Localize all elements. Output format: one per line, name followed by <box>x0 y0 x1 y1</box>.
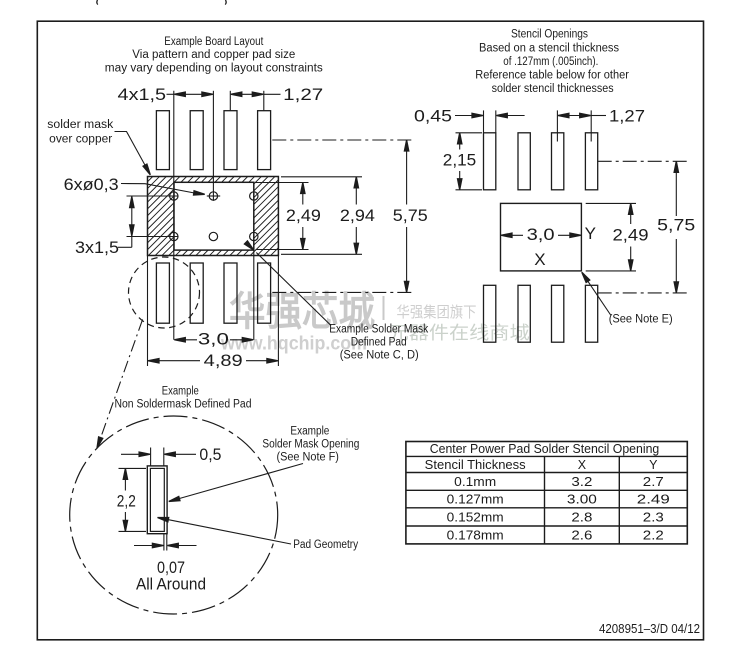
svg-text:Defined Pad: Defined Pad <box>351 337 407 349</box>
via circle 4 <box>170 232 178 240</box>
dimension 2,15 arrow line bottom <box>459 171 461 189</box>
stencil top opening 3 <box>552 133 564 190</box>
via circle 2 <box>209 192 217 200</box>
dimension 1,27 right extension line 1 <box>556 110 558 141</box>
via extension line horizontal row 1 <box>127 195 179 197</box>
svg-text:3,0: 3,0 <box>527 225 555 244</box>
svg-text:3x1,5: 3x1,5 <box>75 238 119 257</box>
svg-text:of .127mm (.005inch).: of .127mm (.005inch). <box>503 56 598 68</box>
dimension 2,2 extension line top <box>119 467 147 469</box>
dimension 0,5 extension line 2 <box>163 448 165 466</box>
via circle 5 <box>209 232 217 240</box>
table row line 4 <box>406 507 687 509</box>
svg-text:2.6: 2.6 <box>571 528 592 542</box>
svg-text:0,5: 0,5 <box>199 445 221 464</box>
LEFT-DRAWING <box>47 36 428 449</box>
via circle 3 <box>250 192 258 200</box>
svg-text:(See Note E): (See Note E) <box>609 312 673 326</box>
WATERMARK <box>220 290 530 355</box>
table row line 2 <box>406 472 687 474</box>
svg-text:Example: Example <box>290 425 329 437</box>
dimension 2,94 arrowhead up <box>354 177 358 188</box>
svg-text:(See Note C, D): (See Note C, D) <box>340 350 419 362</box>
dimension 4,89 line left segment <box>149 360 200 362</box>
solder mask defined pad leader <box>256 253 331 326</box>
dimension 3x1,5 connector <box>118 246 132 248</box>
table column line 1 <box>544 456 546 544</box>
dimension 2,2 arrowhead down <box>123 520 127 531</box>
centerline top (right drawing) <box>598 160 690 162</box>
via extension line horizontal row 2 <box>127 236 179 238</box>
solder mask opening leader <box>179 464 303 499</box>
detail leader arrowhead <box>95 437 103 449</box>
dimension 2,15 arrow line top <box>459 133 461 149</box>
dimension 1,27 right arrowhead right <box>580 113 591 117</box>
dimension 3,0 right arrowhead right <box>570 233 581 237</box>
dimension 3x1,5 arrowhead up <box>130 197 134 208</box>
dimension 2,2 arrow line top <box>124 469 126 491</box>
svg-text:Based on a stencil thickness: Based on a stencil thickness <box>479 42 619 54</box>
dimension 0,5 left arrowhead <box>139 452 150 456</box>
svg-text:solder mask: solder mask <box>47 119 113 131</box>
outer rect right edge extension down <box>277 256 279 367</box>
see note E leader arrowhead <box>580 271 590 283</box>
TABLE <box>406 442 687 544</box>
dimension 2,94 arrowhead down <box>354 243 358 254</box>
dimension 5,75 left arrow line top <box>406 141 408 205</box>
dimension 2,49 extension line top <box>256 182 309 184</box>
dimension 0,5 extension line 1 <box>150 448 152 466</box>
svg-text:All Around: All Around <box>136 574 206 593</box>
svg-text:2.3: 2.3 <box>643 510 664 524</box>
top copper pad 2 <box>190 111 203 170</box>
svg-text:1,27: 1,27 <box>283 85 323 104</box>
svg-text:Pad Geometry: Pad Geometry <box>293 539 358 551</box>
stencil top opening 1 <box>484 133 496 190</box>
svg-text:4208951–3/D 04/12: 4208951–3/D 04/12 <box>599 621 700 636</box>
dimension 2,15 extension line top <box>456 132 483 134</box>
dimension 0,45 left arrowhead <box>472 113 483 117</box>
detail leader dash-dot line <box>100 319 143 441</box>
dimension 2,2 arrowhead up <box>123 468 127 479</box>
bottom copper pad 3 <box>224 263 237 323</box>
svg-text:华强集团旗下: 华强集团旗下 <box>397 304 477 321</box>
detail view phantom circle <box>70 416 278 614</box>
svg-text:Y: Y <box>585 224 596 243</box>
dimension 0,07 left arrowhead <box>152 543 163 547</box>
dimension 0,07 right arrow line <box>168 545 197 547</box>
center pad outer rect <box>148 177 279 256</box>
dimension 1,27 right connector <box>591 115 606 117</box>
svg-text:2,94: 2,94 <box>340 206 375 225</box>
stencil top opening 2 <box>518 133 530 190</box>
dimension 3,0 line right segment <box>230 339 253 341</box>
svg-text:2,49: 2,49 <box>286 206 321 225</box>
svg-text:X: X <box>534 250 545 269</box>
dimension 1,27 right extension line 2 <box>590 110 592 141</box>
dimension 0,07 extension line 1 <box>163 534 165 551</box>
dimension 3,0 right line right segment <box>558 234 580 236</box>
dimension 1,27 left extension line 1 <box>229 91 231 111</box>
svg-text:Y: Y <box>649 458 658 472</box>
svg-text:1,27: 1,27 <box>609 106 645 125</box>
svg-text:X: X <box>578 458 587 472</box>
svg-text:Center Power Pad Solder Stenci: Center Power Pad Solder Stencil Opening <box>430 442 660 456</box>
detail indicator dashed circle <box>129 257 200 328</box>
table row line 1 <box>406 455 687 457</box>
svg-text:Stencil Thickness: Stencil Thickness <box>425 458 526 472</box>
cropped text remnant top: right parenthesis bottom <box>224 0 227 5</box>
dimension 0,07 extension line 2 <box>166 534 168 551</box>
via crosshair tick row 1 <box>207 195 220 197</box>
dimension 4x1,5 arrow line <box>175 93 212 95</box>
svg-text:2,15: 2,15 <box>443 150 477 169</box>
outer rect left edge extension down <box>147 256 149 367</box>
dimension 2,49 right extension line bottom <box>586 270 636 272</box>
svg-text:3.00: 3.00 <box>567 493 597 507</box>
solder mask opening leader arrowhead <box>168 496 180 503</box>
svg-text:over copper: over copper <box>49 134 112 146</box>
svg-text:Example Solder Mask: Example Solder Mask <box>329 324 428 336</box>
bottom copper pad 2 <box>190 263 203 323</box>
dimension 5,75 left arrow line bottom <box>406 227 408 292</box>
centerline bottom (left drawing) <box>272 291 413 293</box>
svg-text:6xø0,3: 6xø0,3 <box>64 175 119 194</box>
via circle 1 <box>170 192 178 200</box>
svg-text:may vary depending on layout c: may vary depending on layout constraints <box>105 63 323 75</box>
svg-text:Reference table below for othe: Reference table below for other <box>475 70 629 82</box>
cropped text remnant top: left parenthesis bottom <box>96 0 99 5</box>
svg-text:(See Note F): (See Note F) <box>276 451 339 463</box>
svg-text:3.2: 3.2 <box>571 475 592 489</box>
svg-text:0.1mm: 0.1mm <box>454 475 496 489</box>
centerline top (left drawing) <box>272 139 413 141</box>
dimension 4,89 line right segment <box>246 360 277 362</box>
svg-text:2,49: 2,49 <box>613 225 649 244</box>
svg-text:0.178mm: 0.178mm <box>447 528 504 542</box>
svg-text:solder stencil thicknesses: solder stencil thicknesses <box>492 83 614 95</box>
dimension 3,0 line left segment <box>175 339 197 341</box>
dimension 2,49 extension line bottom <box>256 249 309 251</box>
dimension 1,27 right arrow line <box>559 115 590 117</box>
dimension 1,27 left arrowhead left <box>231 92 242 96</box>
dimension 3,0 right line left segment <box>502 234 523 236</box>
dimension 3,0 arrowhead left <box>174 338 185 342</box>
dimension 4x1,5 connector <box>167 93 174 95</box>
dimension 6x dia 0,3 leader <box>121 184 195 194</box>
dimension 4,89 arrowhead right <box>267 359 278 363</box>
centerline bottom (right drawing) <box>598 292 690 294</box>
stencil bottom opening 1 <box>484 285 496 342</box>
dimension 1,27 left arrowhead right <box>252 92 263 96</box>
svg-text:Example: Example <box>162 385 199 397</box>
dimension 0,5 right arrowhead <box>164 452 175 456</box>
top copper pad 4 <box>258 111 271 170</box>
dimension 0,45 right arrowhead <box>496 113 507 117</box>
stencil bottom opening 2 <box>518 285 530 342</box>
solder mask leader arrowhead <box>143 164 152 176</box>
dimension 1,27 right arrowhead left <box>558 113 569 117</box>
dimension 3x1,5 arrow line <box>131 197 133 247</box>
inner rect right edge extension down <box>253 250 255 340</box>
dimension 5,75 left arrowhead down <box>404 281 408 292</box>
dimension 2,49 arrow line top <box>302 183 304 205</box>
see note E leader <box>584 276 611 316</box>
svg-text:0.127mm: 0.127mm <box>447 493 504 507</box>
dimension 5,75 left arrowhead up <box>404 140 408 151</box>
dimension 2,49 right arrow line bottom <box>630 247 632 271</box>
svg-text:5,75: 5,75 <box>657 216 695 235</box>
solder mask defined pad leader arrowhead <box>244 241 255 252</box>
pad geometry leader <box>168 520 291 544</box>
table row line 5 <box>406 525 687 527</box>
center pad hatched solder mask ring <box>148 177 279 256</box>
table column line 2 <box>618 456 620 544</box>
dimension 2,49 right arrow line top <box>630 204 632 224</box>
dimension 2,2 extension line bottom <box>119 530 147 532</box>
via extension line vertical B (x=213.4) <box>212 91 214 201</box>
center pad inner rect (solder mask opening) <box>174 182 254 250</box>
dimension 2,94 arrow line bottom <box>355 227 357 254</box>
dimension 2,94 extension line top <box>281 176 362 178</box>
dimension 4,89 arrowhead left <box>148 359 159 363</box>
dimension 5,75 right arrowhead down <box>674 282 678 293</box>
dimension 2,15 arrowhead down <box>458 179 462 190</box>
svg-text:0,45: 0,45 <box>414 106 452 125</box>
dimension 1,27 left connector <box>264 93 281 95</box>
stencil center opening rect <box>501 203 582 271</box>
detail pad geometry rect <box>150 468 164 531</box>
svg-text:2,2: 2,2 <box>117 492 136 511</box>
svg-text:Via pattern and copper pad siz: Via pattern and copper pad size <box>132 49 295 61</box>
svg-text:2.2: 2.2 <box>643 528 664 542</box>
dimension 2,49 right arrowhead down <box>629 260 633 271</box>
dimension 5,75 right arrowhead up <box>674 161 678 172</box>
top copper pad 3 <box>224 111 237 170</box>
dimension 0,5 right arrow line <box>165 453 196 455</box>
solder mask leader <box>115 132 149 172</box>
dimension 4x1,5 arrowhead left <box>174 92 185 96</box>
svg-text:2.7: 2.7 <box>643 475 664 489</box>
dimension 0,45 extension line 1 <box>483 110 485 132</box>
svg-text:Non Soldermask Defined Pad: Non Soldermask Defined Pad <box>115 399 252 411</box>
dimension 0,07 right arrowhead <box>167 543 178 547</box>
svg-text:2.8: 2.8 <box>571 510 592 524</box>
dimension 6x dia 0,3 leader arrowhead <box>194 191 205 197</box>
svg-text:Example Board Layout: Example Board Layout <box>164 36 264 48</box>
stencil bottom opening 3 <box>552 285 564 342</box>
dimension 2,2 arrow line bottom <box>124 512 126 531</box>
dimension 2,49 arrow line bottom <box>302 227 304 249</box>
svg-text:3,0: 3,0 <box>198 330 229 349</box>
svg-text:Solder Mask Opening: Solder Mask Opening <box>262 438 359 450</box>
stencil bottom opening 4 <box>585 285 597 342</box>
svg-text:4x1,5: 4x1,5 <box>118 85 167 104</box>
detail solder mask opening rect <box>147 466 167 534</box>
dimension 0,07 left arrow line <box>134 545 163 547</box>
dimension 2,49 arrowhead up <box>301 183 305 194</box>
dimension 3x1,5 arrowhead down <box>130 225 134 236</box>
dimension 1,27 left extension line 2 <box>263 91 265 111</box>
stencil top opening 4 <box>585 133 597 190</box>
dimension 4x1,5 arrowhead right <box>202 92 213 96</box>
dimension 2,94 arrow line top <box>355 177 357 204</box>
RIGHT-DRAWING <box>414 29 695 342</box>
via circle 6 <box>250 232 258 240</box>
DETAIL-CIRCLE <box>70 385 360 614</box>
svg-text:4,89: 4,89 <box>204 351 243 370</box>
dimension 2,49 right extension line top <box>586 202 636 204</box>
dimension 0,5 left arrow line <box>121 453 150 455</box>
table outer border <box>406 442 687 544</box>
pad geometry leader arrowhead <box>157 515 169 521</box>
dimension 5,75 right arrow line bottom <box>675 239 677 292</box>
svg-text:Stencil Openings: Stencil Openings <box>511 29 588 41</box>
bottom copper pad 4 <box>258 263 271 323</box>
dimension 0,45 right arrow line <box>497 115 525 117</box>
dimension 0,45 left arrow line <box>455 115 483 117</box>
svg-text:0.152mm: 0.152mm <box>447 510 504 524</box>
dimension 2,15 extension line bottom <box>456 189 483 191</box>
via extension line vertical A (x=173.8) <box>173 91 175 340</box>
watermark divider <box>383 296 385 320</box>
table row line 3 <box>406 489 687 491</box>
top copper pad 1 <box>156 111 169 170</box>
dimension 2,49 right arrowhead up <box>629 203 633 214</box>
dimension 2,15 arrowhead up <box>458 133 462 144</box>
dimension 2,49 arrowhead down <box>301 239 305 250</box>
dimension 5,75 right arrow line top <box>675 162 677 216</box>
bottom copper pad 1 <box>156 263 169 323</box>
dimension 2,94 extension line bottom <box>281 253 362 255</box>
dimension 1,27 left arrow line <box>232 93 263 95</box>
svg-text:2.49: 2.49 <box>637 493 670 507</box>
dimension 0,45 extension line 2 <box>495 110 497 132</box>
svg-text:5,75: 5,75 <box>393 206 428 225</box>
dimension 3,0 right arrowhead left <box>501 233 512 237</box>
dimension 3,0 arrowhead right <box>242 338 253 342</box>
